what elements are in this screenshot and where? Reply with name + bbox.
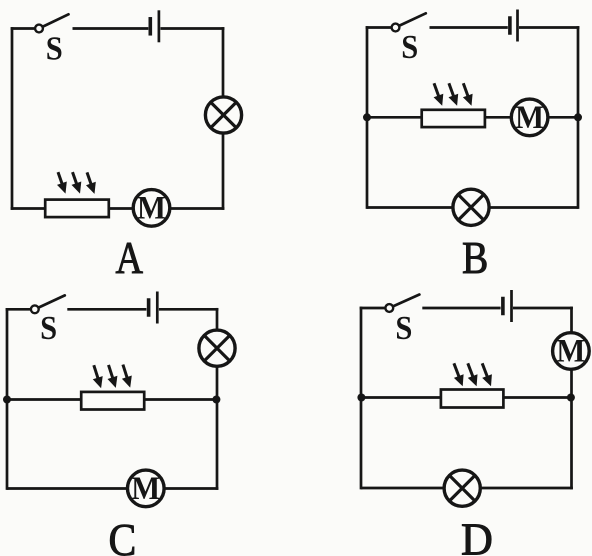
wire A right-lower [222,133,225,210]
svg-text:B: B [462,232,488,283]
lamp (circuit C) [199,330,235,366]
wire A right-upper [222,27,225,97]
wire C top-left [6,308,31,311]
svg-text:C: C [109,514,137,556]
wire D top-right [513,307,573,310]
junction dot B left [363,113,371,121]
wire C middle-left [7,398,82,401]
photoresistor R (circuit A) [45,200,109,218]
wire D bottom-left [361,487,445,490]
wire D middle-right [503,396,572,399]
svg-text:S: S [40,310,57,347]
wire C right-lower [216,366,219,490]
junction dot D left [357,394,365,402]
photoresistor R (circuit C) [81,392,144,410]
svg-text:M: M [137,190,166,226]
wire B top-mid [430,26,508,29]
wire D top-mid [422,307,500,310]
wire B top-right [519,26,579,29]
wire D middle-left [361,396,442,399]
wire D right-lower [570,369,573,490]
junction dot C left [3,396,11,404]
light arrows (circuit A) [57,172,96,194]
wire B right [577,26,580,209]
light arrows (circuit B) [434,83,473,106]
wire D left [360,307,363,490]
light arrows (circuit C) [93,365,132,389]
switch S (circuit C) [31,295,65,313]
photoresistor R (circuit D) [441,390,504,408]
wire C bottom-left [7,487,128,490]
battery (circuit A) [150,10,159,42]
battery (circuit C) [149,292,158,324]
photoresistor R (circuit B) [422,110,485,127]
wire B middle-right [548,116,579,119]
wire A top-mid [73,27,149,30]
wire D top-left [360,307,386,310]
wire B resistor-motor [485,116,513,119]
junction dot D right [567,394,575,402]
junction dot B right [574,113,582,121]
wire A bottom-left [11,207,46,210]
wire B left [366,26,369,209]
light arrows (circuit D) [454,363,492,386]
motor M (circuit C) [128,470,165,507]
svg-text:S: S [46,31,63,68]
svg-text:S: S [395,310,412,347]
wire D right-upper [570,307,573,334]
wire B bottom-right [489,206,579,209]
svg-text:M: M [131,471,160,507]
wire C bottom-right [164,487,218,490]
svg-text:D: D [461,514,493,556]
wire B middle-left [367,116,423,119]
wire D bottom-right [480,487,573,490]
svg-text:M: M [556,334,585,370]
lamp (circuit D) [444,470,480,506]
wire A bottom-right [170,207,225,210]
wire B bottom-left [367,206,454,209]
svg-text:M: M [515,100,544,136]
wire A top-left [11,27,36,30]
motor M (circuit A) [133,190,170,227]
junction dot C right [212,396,220,404]
wire C left [6,308,9,490]
switch S (circuit A) [35,14,68,32]
lamp (circuit A) [205,97,241,133]
lamp (circuit B) [453,189,489,225]
wire C middle-right [144,398,217,401]
svg-text:S: S [401,29,418,66]
wire C right-upper [216,308,219,332]
wire A left [11,27,14,210]
battery (circuit D) [503,290,512,322]
wire C top-right [159,308,218,311]
wire C top-mid [67,308,146,311]
motor M (circuit D) [553,333,590,370]
motor M (circuit B) [511,99,548,136]
wire A motor-resistor [110,207,134,210]
wire B top-left [366,26,392,29]
wire A top-right [161,27,225,30]
switch S (circuit B) [392,13,426,31]
svg-text:A: A [115,232,143,283]
switch S (circuit D) [385,295,419,312]
battery (circuit B) [510,10,518,42]
